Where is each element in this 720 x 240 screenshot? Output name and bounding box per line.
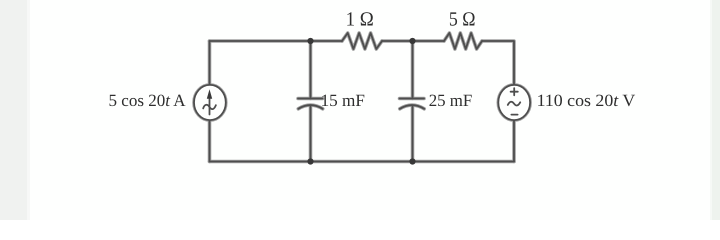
soft halo pass of circuit strokes (emulates scan blur): [194, 33, 530, 165]
svg-text:25 mF: 25 mF: [429, 91, 473, 110]
svg-text:5 Ω: 5 Ω: [449, 9, 476, 31]
dark core pass of circuit strokes: [194, 33, 530, 165]
svg-text:110 cos 20t V: 110 cos 20t V: [537, 91, 636, 110]
svg-text:15 mF: 15 mF: [321, 91, 365, 110]
svg-text:1 Ω: 1 Ω: [346, 9, 374, 31]
svg-text:5 cos 20t A: 5 cos 20t A: [109, 91, 187, 110]
